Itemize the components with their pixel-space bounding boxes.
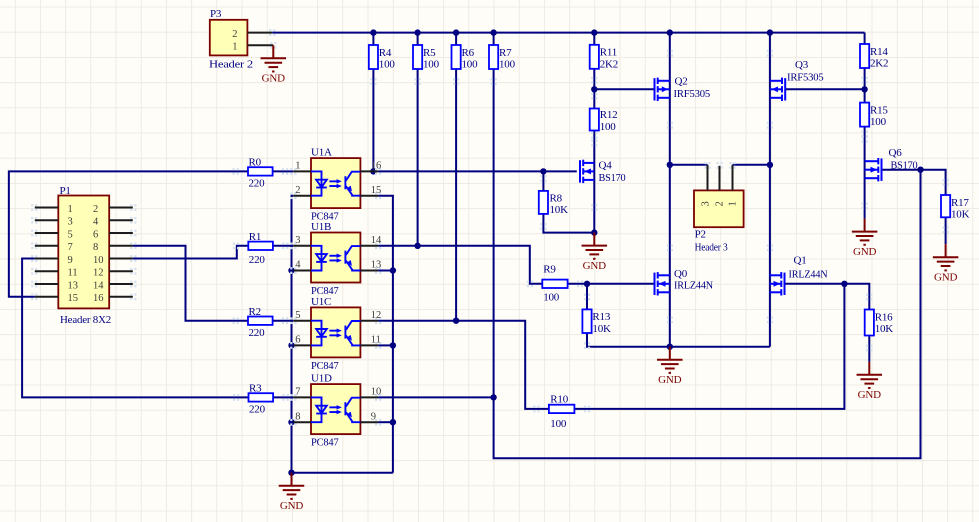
svg-text:R2: R2	[249, 306, 261, 318]
P1 pin 12	[109, 270, 133, 272]
P1 pin 1	[35, 207, 59, 209]
P1 pin 7	[35, 245, 59, 247]
svg-text:13: 13	[68, 280, 79, 291]
P1 pin 15	[35, 296, 59, 298]
wire U1B pin14 to R9	[378, 246, 542, 284]
optocoupler U1C (PC847)	[311, 307, 360, 357]
svg-text:PC847: PC847	[311, 360, 339, 372]
U1C pin 5	[293, 320, 311, 322]
svg-text:15: 15	[371, 185, 382, 196]
P1 pin 4	[109, 219, 133, 221]
U1B pin 14	[360, 245, 378, 247]
P1 pin 2	[109, 207, 133, 209]
resistor R7 (100)	[489, 45, 498, 69]
transistor Q0 (IRLZ44N)	[655, 272, 670, 295]
svg-text:100: 100	[870, 116, 887, 128]
svg-text:12: 12	[371, 310, 382, 321]
resistor R6 (100)	[452, 45, 461, 69]
connector P1 (Header 8X2)	[58, 196, 109, 309]
svg-text:GND: GND	[583, 260, 606, 272]
wire opto cathode column	[292, 196, 294, 473]
svg-text:16: 16	[371, 161, 382, 172]
svg-text:10K: 10K	[875, 323, 894, 335]
svg-text:1: 1	[727, 201, 738, 206]
resistor R8 (10K)	[539, 191, 548, 214]
resistor R16 (10K)	[865, 310, 874, 336]
U1D pin 8	[293, 421, 311, 423]
svg-text:Header 2: Header 2	[209, 58, 253, 70]
svg-text:16: 16	[93, 293, 104, 304]
svg-text:15: 15	[68, 293, 79, 304]
svg-text:BS170: BS170	[891, 160, 919, 172]
svg-text:220: 220	[249, 327, 266, 339]
wire P1 pin9 to R3	[22, 259, 248, 398]
junction emitter/pin9	[390, 419, 396, 425]
resistor R9 (100)	[542, 280, 567, 288]
junction bus/R11	[591, 29, 597, 35]
svg-text:100: 100	[550, 418, 567, 430]
wire R6 column	[455, 33, 457, 45]
svg-text:R3: R3	[249, 383, 262, 395]
wire R14-R15-Q6 column	[864, 33, 866, 44]
ground opto common	[279, 473, 305, 499]
U1C pin 11	[360, 344, 378, 346]
junction node A	[667, 162, 673, 168]
svg-text:1: 1	[232, 42, 237, 53]
svg-text:BS170: BS170	[599, 172, 627, 184]
ground P3	[261, 45, 287, 71]
resistor R4 (100)	[369, 45, 378, 69]
svg-text:13: 13	[371, 260, 382, 271]
svg-text:Q3: Q3	[795, 59, 809, 71]
P1 pin 13	[35, 283, 59, 285]
wire U1A pin16 row to Q4 gate	[378, 170, 577, 172]
svg-text:100: 100	[379, 59, 396, 71]
junction R4/pin16	[370, 168, 376, 174]
svg-text:11: 11	[371, 335, 381, 346]
svg-text:6: 6	[93, 229, 98, 240]
svg-text:R16: R16	[875, 311, 893, 323]
svg-text:GND: GND	[858, 389, 881, 401]
wire R8 branch	[542, 171, 544, 191]
resistor R12 (100)	[590, 109, 599, 131]
svg-text:GND: GND	[934, 271, 957, 283]
svg-text:5: 5	[68, 229, 73, 240]
svg-text:10K: 10K	[550, 204, 569, 216]
ground Q6 source	[852, 219, 878, 245]
svg-text:220: 220	[249, 178, 266, 190]
junction bus/R6	[453, 29, 459, 35]
junction R6/pin12	[453, 318, 459, 324]
P1 pin 16	[109, 296, 133, 298]
svg-text:R7: R7	[499, 47, 512, 59]
wire opto emitter column	[378, 196, 393, 473]
svg-text:IRLZ44N: IRLZ44N	[674, 280, 713, 292]
svg-text:P2: P2	[695, 229, 706, 241]
wire R7 column	[493, 33, 495, 45]
svg-text:Q1: Q1	[794, 255, 807, 267]
wire R3 to U1D pin7	[272, 396, 293, 398]
svg-text:14: 14	[371, 235, 382, 246]
P2 pin 1	[732, 165, 734, 191]
svg-text:GND: GND	[658, 374, 681, 386]
svg-text:R11: R11	[600, 47, 617, 59]
wire R1 to U1B pin3	[273, 245, 293, 247]
svg-text:3: 3	[295, 235, 300, 246]
svg-text:4: 4	[295, 260, 301, 271]
svg-text:12: 12	[93, 268, 104, 279]
svg-text:5: 5	[295, 310, 300, 321]
junction emitter/pin11	[390, 342, 396, 348]
junction Q4 gate/R8	[540, 168, 546, 174]
junction bus/Q3	[767, 29, 773, 35]
svg-text:100: 100	[423, 59, 440, 71]
junction emitter/pin13	[390, 267, 396, 273]
U1B pin 4	[293, 270, 311, 272]
wire R5 column	[417, 33, 419, 45]
junction cathode GND	[288, 470, 294, 476]
wire R0 to U1A pin1	[273, 170, 294, 172]
U1A pin 16	[360, 170, 378, 172]
svg-text:Q0: Q0	[674, 268, 688, 280]
svg-text:U1B: U1B	[311, 221, 331, 233]
optocoupler U1D (PC847)	[311, 384, 360, 434]
resistor R0 (220)	[248, 167, 273, 175]
transistor Q2 (IRF5305 P-MOSFET)	[655, 78, 670, 101]
svg-text:R5: R5	[423, 47, 436, 59]
resistor R3 (220)	[249, 393, 274, 401]
junction Q1 gate node	[841, 281, 847, 287]
junction cathode/pin6	[288, 342, 294, 348]
svg-text:9: 9	[371, 411, 376, 422]
U1D pin 9	[360, 421, 378, 423]
resistor R14 (2K2)	[860, 44, 869, 68]
wire node A to P2 pin3	[670, 164, 708, 166]
U1A pin 15	[360, 195, 378, 197]
U1B pin 3	[293, 245, 311, 247]
wire R2 to U1C pin5	[273, 320, 294, 322]
wire Q6 gate long route down	[494, 170, 921, 459]
junction bus/R4	[370, 29, 376, 35]
ground R17	[933, 244, 959, 270]
svg-text:GND: GND	[280, 500, 303, 512]
wire Q1 gate node to R16	[844, 284, 869, 310]
P1 pin 5	[35, 232, 59, 234]
wire R9 to Q0 gate	[568, 283, 654, 285]
P2 pin 2	[719, 166, 721, 191]
junction R5/pin14	[414, 243, 420, 249]
svg-text:2: 2	[232, 29, 237, 40]
resistor R2 (220)	[248, 317, 273, 325]
svg-text:3: 3	[68, 217, 73, 228]
optocoupler U1B (PC847)	[311, 233, 360, 283]
ground H-bridge low side	[657, 347, 683, 373]
junction R9/R13/Q0 gate	[584, 281, 590, 287]
wire R4 column	[372, 33, 374, 45]
wire P1 pin10 to R1	[133, 246, 249, 259]
svg-text:Header 3: Header 3	[695, 242, 728, 254]
U1D pin 7	[293, 396, 311, 398]
svg-text:GND: GND	[853, 246, 876, 258]
svg-text:P1: P1	[60, 185, 71, 197]
svg-text:10: 10	[371, 387, 382, 398]
junction R7/pin10	[490, 394, 496, 400]
svg-text:4: 4	[93, 217, 99, 228]
P1 pin 6	[109, 232, 133, 234]
wire R10 to Q1 gate node	[574, 284, 844, 409]
svg-text:U1A: U1A	[311, 147, 332, 159]
transistor Q6 (BS170)	[865, 158, 882, 181]
wire GND link under optos	[292, 472, 393, 474]
transistor Q3 (IRF5305 P-MOSFET)	[770, 78, 785, 101]
svg-text:10K: 10K	[951, 209, 970, 221]
wire R11-R12-Q4 column	[593, 33, 595, 45]
resistor R1 (220)	[248, 242, 273, 250]
resistor R11 (2K2)	[590, 45, 599, 69]
wire P1 pin8 to R2	[133, 246, 248, 321]
resistor R10 (100)	[549, 405, 575, 413]
svg-text:R13: R13	[592, 311, 610, 323]
svg-text:3: 3	[701, 201, 712, 206]
P3 pin 1	[247, 44, 273, 46]
svg-text:R17: R17	[951, 197, 969, 209]
svg-text:10: 10	[93, 255, 104, 266]
svg-text:10K: 10K	[592, 323, 611, 335]
transistor Q4 (BS170)	[580, 160, 594, 183]
svg-text:R8: R8	[550, 193, 563, 205]
junction bus/R7	[490, 29, 496, 35]
wire U1D pin10 row	[378, 396, 494, 398]
ground R16	[857, 362, 883, 388]
optocoupler U1A (PC847)	[311, 158, 360, 208]
wire Q1 gate lead	[785, 283, 844, 285]
svg-text:Q6: Q6	[889, 147, 903, 159]
svg-text:100: 100	[600, 121, 617, 133]
svg-text:IRF5305: IRF5305	[674, 88, 711, 100]
P1 pin 3	[35, 219, 59, 221]
junction cathode/pin8	[288, 419, 294, 425]
svg-text:7: 7	[295, 387, 300, 398]
P1 pin 14	[109, 283, 133, 285]
ground Q4 source	[582, 233, 608, 259]
svg-text:7: 7	[68, 242, 73, 253]
U1C pin 12	[360, 320, 378, 322]
svg-text:R10: R10	[550, 393, 568, 405]
svg-text:2K2: 2K2	[870, 58, 888, 70]
junction Q6 gate node	[917, 167, 923, 173]
junction bus/Q2	[667, 29, 673, 35]
connector P3 (Header 2)	[210, 20, 248, 56]
svg-text:2: 2	[93, 204, 98, 215]
wire P1 pin15 to R0	[9, 171, 248, 296]
P1 pin 9	[35, 258, 59, 260]
P3 pin 2	[247, 32, 272, 34]
wire R13 branch	[586, 284, 588, 310]
U1A pin 2	[293, 195, 311, 197]
U1C pin 6	[293, 344, 311, 346]
svg-text:8: 8	[295, 411, 300, 422]
P1 pin 8	[109, 245, 133, 247]
junction node B	[767, 162, 773, 168]
svg-text:R0: R0	[249, 157, 262, 169]
svg-text:100: 100	[462, 59, 479, 71]
svg-text:U1C: U1C	[311, 296, 331, 308]
junction Q4 source/R8/GND	[591, 229, 597, 235]
svg-text:GND: GND	[262, 73, 285, 85]
wire Q6 gate to R17 net	[882, 170, 946, 195]
P2 pin 3	[707, 165, 709, 191]
svg-text:220: 220	[249, 404, 266, 416]
svg-text:9: 9	[68, 255, 73, 266]
svg-text:14: 14	[93, 280, 104, 291]
U1D pin 10	[360, 396, 378, 398]
svg-text:1: 1	[68, 204, 73, 215]
wire U1C pin12 to R10	[378, 321, 549, 409]
svg-text:R1: R1	[249, 231, 261, 243]
svg-text:6: 6	[295, 335, 300, 346]
pin hotspot grid markers	[31, 204, 37, 211]
connector P2 (Header 3)	[694, 190, 744, 227]
svg-text:Q4: Q4	[599, 160, 613, 172]
svg-text:R9: R9	[543, 263, 556, 275]
svg-text:IRLZ44N: IRLZ44N	[789, 269, 828, 281]
junction Q0 source GND node	[667, 344, 673, 350]
P1 pin 11	[35, 270, 59, 272]
wire Q2 gate lead	[594, 88, 653, 90]
resistor R13 (10K)	[582, 309, 591, 333]
wire Q6 gate-bar stub	[882, 169, 883, 171]
svg-text:IRF5305: IRF5305	[787, 71, 824, 83]
junction bus/R5	[414, 29, 420, 35]
svg-text:R15: R15	[870, 104, 888, 116]
wire Q3/Q1 drain column	[769, 33, 771, 347]
wire main +V bus	[272, 32, 864, 34]
U1B pin 13	[360, 270, 378, 272]
svg-text:2K2: 2K2	[600, 58, 618, 70]
wire node B to P2 pin1	[733, 164, 770, 166]
resistor R15 (100)	[860, 103, 869, 127]
resistor R5 (100)	[413, 45, 422, 69]
svg-text:220: 220	[249, 254, 266, 266]
junction Q2 gate node	[591, 86, 597, 92]
svg-text:11: 11	[68, 268, 78, 279]
svg-text:R12: R12	[600, 109, 618, 121]
junction Q3 gate node	[861, 86, 867, 92]
svg-text:P3: P3	[210, 8, 222, 20]
svg-text:Q2: Q2	[675, 76, 688, 88]
junction cathode/pin4	[288, 267, 294, 273]
U1A pin 1	[293, 170, 311, 172]
svg-text:1: 1	[295, 161, 300, 172]
svg-text:R4: R4	[379, 47, 392, 59]
svg-text:R6: R6	[462, 47, 475, 59]
svg-text:PC847: PC847	[311, 437, 339, 449]
transistor Q1 (IRLZ44N)	[769, 272, 784, 295]
svg-text:100: 100	[543, 291, 560, 303]
svg-text:2: 2	[714, 201, 725, 206]
wire Q2/Q0 drain column	[669, 33, 671, 347]
svg-text:Header 8X2: Header 8X2	[60, 314, 111, 326]
svg-text:100: 100	[499, 59, 516, 71]
svg-text:R14: R14	[870, 46, 888, 58]
svg-text:2: 2	[295, 185, 300, 196]
resistor R17 (10K)	[941, 195, 950, 217]
svg-text:U1D: U1D	[311, 373, 332, 385]
wire Q3 gate lead	[786, 88, 865, 90]
svg-text:8: 8	[93, 242, 98, 253]
P1 pin 10	[109, 258, 133, 260]
